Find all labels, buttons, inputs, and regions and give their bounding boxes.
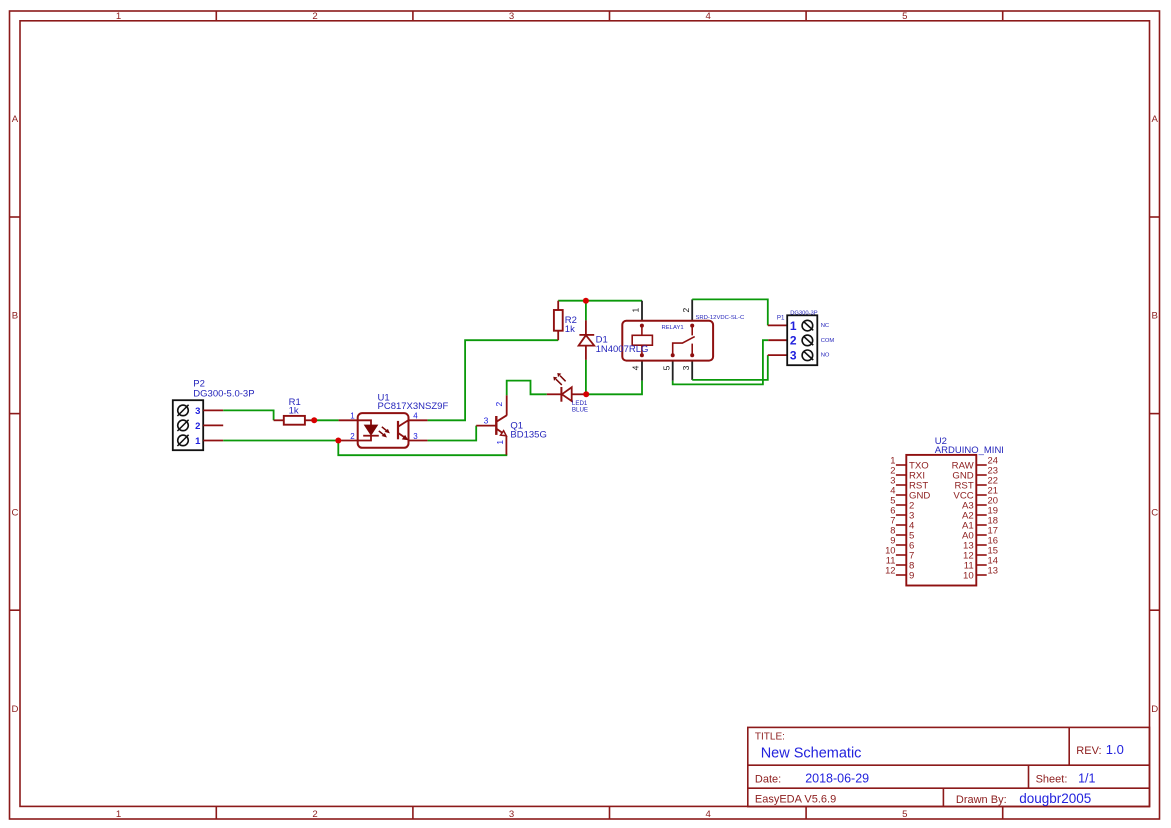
svg-text:2018-06-29: 2018-06-29 xyxy=(805,771,869,785)
svg-text:2: 2 xyxy=(312,11,317,22)
svg-text:1: 1 xyxy=(195,436,201,447)
LED1 anode stub xyxy=(572,393,587,395)
wire U1.4 to R2 bottom xyxy=(428,340,559,420)
U2 pin stubs right xyxy=(976,465,986,575)
U1 body xyxy=(358,413,409,448)
P2 screw terminal 3 xyxy=(178,405,189,416)
resistor R1 xyxy=(274,397,315,425)
wire U1.3 to Q1 base xyxy=(428,426,477,441)
RELAY1 pin 5 xyxy=(672,361,674,381)
svg-text:9: 9 xyxy=(909,570,914,581)
P1 pin 1 stub xyxy=(768,324,787,326)
svg-text:13: 13 xyxy=(988,564,998,575)
U1 pin 1 stub xyxy=(339,419,358,421)
svg-text:3: 3 xyxy=(509,809,514,820)
transistor Q1 BD135G xyxy=(476,395,547,455)
svg-text:Drawn By:: Drawn By: xyxy=(956,794,1007,806)
wire LED1 to relay pin4 xyxy=(586,381,642,395)
svg-text:1: 1 xyxy=(350,412,355,421)
junction node D1 top xyxy=(583,298,589,304)
junction node after R1 xyxy=(311,417,317,423)
svg-text:B: B xyxy=(12,311,18,322)
svg-text:3: 3 xyxy=(509,11,514,22)
svg-text:Date:: Date: xyxy=(755,773,781,785)
svg-text:B: B xyxy=(1151,311,1157,322)
svg-text:DG300-5.0-3P: DG300-5.0-3P xyxy=(193,389,254,400)
svg-text:1k: 1k xyxy=(289,405,299,416)
P2 screw terminal 2 xyxy=(178,420,189,431)
wire R2 top to relay pin1 xyxy=(558,300,642,302)
U2 body xyxy=(906,455,976,586)
Q1 collector xyxy=(496,415,506,422)
svg-text:2: 2 xyxy=(681,308,691,313)
LED1 cathode bar xyxy=(560,387,562,402)
svg-text:New Schematic: New Schematic xyxy=(761,746,862,762)
wire P2.3 to R1 xyxy=(223,410,273,420)
svg-text:2: 2 xyxy=(350,432,355,441)
svg-text:1k: 1k xyxy=(565,324,575,335)
RELAY1 pin 3 xyxy=(691,361,693,380)
svg-text:P1: P1 xyxy=(777,315,785,322)
wire relay pin2 to P1.1 xyxy=(692,299,768,325)
wire D1 bottom link xyxy=(585,360,587,394)
RELAY1 pin 2 xyxy=(691,299,693,320)
junction node at U1 pin2 xyxy=(335,438,341,444)
svg-text:2: 2 xyxy=(195,421,200,432)
wire D1 top link xyxy=(585,301,587,321)
U2 pin numbers left 1-12 xyxy=(885,454,895,575)
RELAY1 body xyxy=(622,321,713,361)
RELAY1 coil xyxy=(640,324,644,328)
connector P2 DG300-5.0-3P xyxy=(173,379,255,451)
svg-text:BD135G: BD135G xyxy=(510,430,546,441)
svg-text:A: A xyxy=(1151,114,1158,125)
svg-text:1: 1 xyxy=(116,809,121,820)
svg-text:1N4007RLG: 1N4007RLG xyxy=(596,344,649,355)
RELAY1 pin 1 xyxy=(641,301,643,321)
U1 internal LED xyxy=(358,420,371,425)
svg-text:4: 4 xyxy=(413,412,418,421)
svg-text:BLUE: BLUE xyxy=(572,406,588,413)
U1 pin 4 stub xyxy=(409,419,428,421)
optocoupler U1 PC817X3NSZ9F xyxy=(338,393,448,448)
connector P1 DG300-3P xyxy=(768,310,835,365)
diode D1 1N4007RLG xyxy=(579,320,649,360)
svg-text:4: 4 xyxy=(631,365,641,370)
wire junction to Q1 emitter xyxy=(338,441,506,456)
LED1 triangle xyxy=(562,387,572,401)
P1 body xyxy=(787,315,817,365)
svg-text:PC817X3NSZ9F: PC817X3NSZ9F xyxy=(378,401,449,412)
P1 screw terminal 1 xyxy=(802,320,813,331)
svg-text:ARDUINO_MINI: ARDUINO_MINI xyxy=(935,445,1004,456)
svg-text:dougbr2005: dougbr2005 xyxy=(1019,791,1091,806)
svg-text:1: 1 xyxy=(790,319,797,333)
svg-text:5: 5 xyxy=(661,365,671,370)
svg-text:5: 5 xyxy=(902,809,907,820)
svg-text:RELAY1: RELAY1 xyxy=(662,325,684,331)
P1 screw terminal 2 xyxy=(802,335,813,346)
svg-text:10: 10 xyxy=(963,570,974,581)
Q1 emitter with arrow xyxy=(496,429,502,433)
svg-text:2: 2 xyxy=(790,334,797,348)
svg-text:Sheet:: Sheet: xyxy=(1036,773,1068,785)
svg-text:D: D xyxy=(1151,704,1158,715)
svg-text:1/1: 1/1 xyxy=(1078,771,1095,785)
svg-text:4: 4 xyxy=(706,809,712,820)
svg-text:3: 3 xyxy=(681,365,691,370)
resistor R2 xyxy=(554,301,577,341)
svg-text:12: 12 xyxy=(885,564,895,575)
P2 body xyxy=(173,400,203,450)
svg-text:COM: COM xyxy=(821,338,835,344)
wire R1 to U1 pin1 xyxy=(314,419,338,421)
LED1 cathode stub xyxy=(547,393,562,395)
U1 pin 3 stub xyxy=(409,440,428,442)
P1 pin 3 stub xyxy=(768,354,787,356)
svg-text:1: 1 xyxy=(495,440,505,445)
svg-text:TITLE:: TITLE: xyxy=(755,732,785,743)
RELAY1 switch xyxy=(690,324,694,328)
svg-text:DG300-3P: DG300-3P xyxy=(790,310,818,316)
svg-text:EasyEDA V5.6.9: EasyEDA V5.6.9 xyxy=(755,794,836,806)
wire P2.1 to U1 pin2 xyxy=(223,440,338,442)
svg-text:C: C xyxy=(12,507,19,518)
svg-text:3: 3 xyxy=(484,415,489,425)
U2 pin numbers right 24-13 xyxy=(988,454,998,575)
wire relay pin3 to P1.3 xyxy=(692,355,768,380)
svg-text:2: 2 xyxy=(494,402,504,407)
svg-text:1: 1 xyxy=(631,308,641,313)
P2 pin 3 stub xyxy=(203,409,223,411)
P2 pin 2 stub xyxy=(203,424,223,426)
U1 light arrows xyxy=(382,427,388,432)
LED LED1 BLUE xyxy=(547,373,588,413)
svg-text:4: 4 xyxy=(706,11,712,22)
svg-text:SRD-12VDC-SL-C: SRD-12VDC-SL-C xyxy=(696,315,746,321)
P1 pin 2 stub xyxy=(768,339,787,341)
svg-text:2: 2 xyxy=(312,809,317,820)
junction node LED1 anode xyxy=(583,391,589,397)
P1 screw terminal 3 xyxy=(802,350,813,361)
svg-text:A: A xyxy=(12,114,19,125)
svg-text:NO: NO xyxy=(821,353,830,359)
wire relay pin5 to P1.2 xyxy=(673,340,769,384)
svg-text:1: 1 xyxy=(116,11,121,22)
svg-text:NC: NC xyxy=(821,323,829,329)
relay RELAY1 SRD-12VDC-SL-C xyxy=(622,299,745,380)
Q1 base bar xyxy=(495,416,497,435)
svg-text:C: C xyxy=(1151,507,1158,518)
U1 phototransistor xyxy=(397,421,399,439)
Q1 base stub xyxy=(476,425,496,427)
U1 pin 2 stub xyxy=(338,440,357,442)
P2 screw terminal 1 xyxy=(178,435,189,446)
svg-text:REV:: REV: xyxy=(1076,745,1101,757)
P2 pin 1 stub xyxy=(203,440,223,442)
svg-text:3: 3 xyxy=(195,406,200,417)
svg-text:1.0: 1.0 xyxy=(1106,742,1124,757)
LED1 light arrows xyxy=(556,379,562,385)
svg-text:5: 5 xyxy=(902,11,907,22)
wire Q1 collector to LED1 xyxy=(507,381,547,396)
U2 pin names right xyxy=(952,460,975,581)
svg-text:D: D xyxy=(12,704,19,715)
U2 pin stubs left xyxy=(896,465,906,575)
IC U2 ARDUINO_MINI xyxy=(885,436,1004,585)
svg-text:3: 3 xyxy=(790,349,797,363)
U2 pin names left xyxy=(909,460,930,581)
svg-text:3: 3 xyxy=(413,432,418,441)
RELAY1 pin 4 xyxy=(641,361,643,381)
